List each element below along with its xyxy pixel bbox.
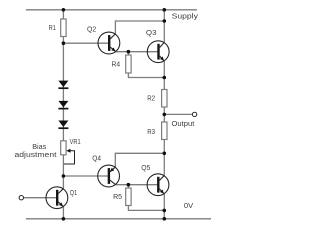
svg-text:R5: R5: [113, 192, 122, 201]
svg-text:R3: R3: [147, 127, 155, 136]
svg-text:Q3: Q3: [146, 28, 157, 37]
svg-text:Q5: Q5: [141, 163, 150, 172]
svg-text:R4: R4: [112, 60, 121, 69]
svg-text:Q4: Q4: [92, 153, 101, 162]
svg-text:R2: R2: [147, 94, 155, 103]
svg-text:Q1: Q1: [70, 188, 77, 197]
svg-text:R1: R1: [49, 23, 56, 32]
svg-text:Output: Output: [172, 119, 196, 128]
svg-text:adjustment: adjustment: [15, 150, 58, 159]
svg-text:Q2: Q2: [87, 24, 96, 33]
svg-text:0V: 0V: [184, 201, 194, 210]
svg-text:VR1: VR1: [70, 137, 81, 146]
svg-text:Supply: Supply: [172, 12, 199, 21]
